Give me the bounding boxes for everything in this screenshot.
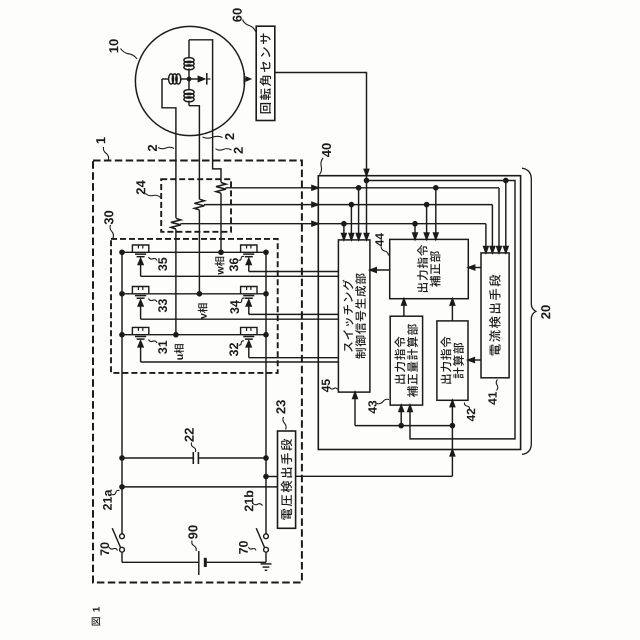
gate wire to transistor 31 bbox=[141, 361, 339, 363]
smoothing capacitor 22 bbox=[122, 452, 266, 464]
gate wire to transistor 32 bbox=[249, 357, 339, 359]
inverter dashed box 30 bbox=[111, 239, 278, 373]
label u相 bbox=[174, 344, 184, 360]
current detection box 41 電流検出手段 bbox=[481, 253, 509, 378]
switch 70 (left, on 21a) bbox=[112, 528, 124, 562]
junction dots capacitor line bbox=[120, 456, 124, 460]
label 35 bbox=[149, 257, 168, 271]
inverter row 1 wire (w) bbox=[122, 251, 266, 253]
label 21b bbox=[244, 491, 262, 512]
transistor 31 bbox=[132, 327, 148, 362]
resolver stator bar on circle edge bbox=[244, 73, 250, 85]
junction dots bus row 335 bbox=[120, 333, 124, 337]
wire w-phase from motor bbox=[189, 40, 221, 183]
node u-phase row3 bbox=[174, 333, 178, 337]
label 42 bbox=[464, 403, 475, 422]
right DC bus (21b side) bbox=[265, 252, 267, 534]
label 36 bbox=[229, 256, 244, 271]
gate wire to transistor 33 bbox=[141, 318, 339, 320]
label 43 bbox=[368, 399, 389, 413]
inverter row 3 wire (u) bbox=[122, 334, 266, 336]
motor winding u-phase (left coil) bbox=[162, 74, 189, 84]
label 24 bbox=[136, 180, 160, 197]
motor M 10 circle bbox=[135, 26, 244, 135]
wire 44 to 45 bbox=[370, 268, 390, 273]
label 34 bbox=[230, 298, 244, 314]
switching control signal generation box 45 スイッチング制御信号生成部 bbox=[338, 240, 370, 392]
brace 20 (control unit grouping) bbox=[522, 168, 536, 454]
ground symbol bbox=[261, 564, 272, 570]
inverter row 2 wire (v) bbox=[122, 293, 266, 295]
node v-phase row2 bbox=[197, 292, 201, 296]
gate wire to transistor 35 bbox=[141, 275, 339, 277]
voltage detection box 23 電圧検出手段 bbox=[278, 431, 296, 528]
label 30 bbox=[104, 211, 113, 238]
label 41 bbox=[488, 380, 497, 405]
label 40 bbox=[320, 143, 332, 174]
gate wire to transistor 36 bbox=[249, 271, 339, 273]
label 33 bbox=[149, 299, 168, 313]
wire 41 to 44 bbox=[468, 265, 481, 270]
transistor 35 bbox=[132, 245, 148, 276]
feedback wire bottom (42/43/45) bbox=[355, 392, 455, 428]
current sensor w-phase (zigzag) bbox=[216, 183, 226, 253]
current sensor u-phase (zigzag) bbox=[171, 218, 181, 334]
junction dots bus row 252 bbox=[120, 250, 124, 254]
wire current sense v (B) bbox=[204, 203, 493, 252]
motor winding w-phase (top coil) bbox=[184, 40, 194, 79]
label 2 (u wire) bbox=[148, 145, 174, 151]
label 23 bbox=[276, 400, 286, 429]
rotation angle sensor box 60 回転角センサ bbox=[256, 26, 275, 120]
label v相 bbox=[198, 303, 208, 319]
label 31 bbox=[149, 340, 168, 354]
node w-phase row1 bbox=[219, 250, 223, 254]
transistor 33 bbox=[132, 287, 148, 320]
gate wire to transistor 34 bbox=[249, 313, 339, 315]
wire 42 to 44 bbox=[450, 299, 455, 321]
battery 90 bbox=[122, 551, 266, 575]
wire 21a bus sense line to box 23 bbox=[122, 486, 278, 488]
transistor 34 bbox=[241, 287, 257, 315]
wire 43 to 44 bbox=[402, 299, 407, 316]
label 10 bbox=[109, 39, 137, 59]
wire rotation angle inside 40: node and branches bbox=[364, 176, 515, 439]
resolver rotor bar bbox=[207, 73, 211, 85]
motor winding v-phase (bottom coil) bbox=[184, 79, 194, 106]
output command correction box 44 出力指令補正部 bbox=[390, 239, 469, 298]
label 44 bbox=[375, 233, 388, 255]
figure label 図1 bbox=[92, 607, 101, 626]
controller outer dashed box 1 bbox=[93, 161, 302, 583]
label 70 left bbox=[100, 542, 117, 555]
transistor 32 bbox=[241, 327, 257, 357]
motor shaft arrow to resolver bbox=[189, 77, 205, 82]
label w相 bbox=[215, 257, 225, 275]
label 21a bbox=[103, 489, 120, 510]
junction dots bus row 294 bbox=[120, 292, 124, 296]
label 22 bbox=[185, 428, 196, 452]
switch 70 (right, on 21b) bbox=[256, 528, 268, 562]
label 32 bbox=[229, 341, 244, 356]
label 2 (v wire) bbox=[203, 133, 235, 139]
wire u-phase from motor bbox=[162, 79, 176, 218]
label 1 bbox=[96, 137, 108, 159]
output command calculation box 42 出力指令計算部 bbox=[437, 321, 468, 400]
controller box 40 bbox=[318, 176, 520, 450]
wire current sense u (C) bbox=[180, 222, 486, 252]
current sensors dashed box 24 bbox=[161, 179, 231, 232]
left DC bus (21a side) bbox=[121, 252, 123, 534]
wire sensor 60 to controller 40 bbox=[275, 73, 367, 175]
output command correction amount calc box 43 出力指令補正量計算部 bbox=[390, 316, 422, 405]
label 60 bbox=[233, 8, 256, 31]
label 2 (w wire) bbox=[216, 147, 243, 153]
voltage feedback wire from 23 to 42 bbox=[296, 400, 453, 476]
wire 21b bus to box 23 bbox=[266, 476, 278, 478]
wire 41 to 42 bbox=[468, 358, 481, 363]
motor star node bbox=[187, 77, 190, 80]
wire v-phase from motor bbox=[189, 106, 199, 200]
wire current sense w (A) bbox=[226, 186, 500, 252]
current sensor v-phase (zigzag) bbox=[194, 199, 204, 294]
transistor 36 bbox=[241, 245, 257, 272]
label 90 bbox=[188, 525, 197, 551]
label 70 right bbox=[239, 541, 256, 554]
label 45 bbox=[322, 379, 338, 392]
label 20 bbox=[541, 305, 550, 318]
